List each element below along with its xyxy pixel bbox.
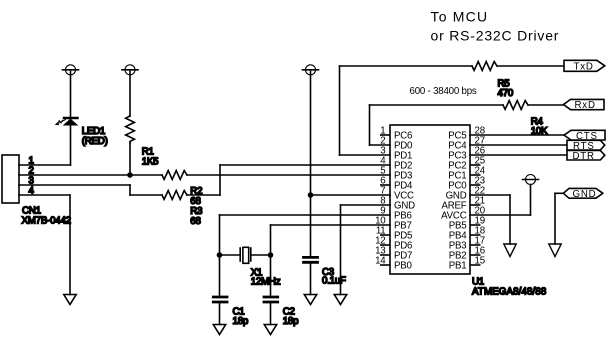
- capacitor C1: [213, 255, 227, 325]
- ground (C3): [304, 295, 316, 305]
- resistor R5: [472, 62, 497, 71]
- svg-text:DTR: DTR: [573, 151, 595, 162]
- net tag RxD: [564, 99, 605, 111]
- net tag GND: [563, 188, 602, 200]
- wire CN1 pin4 to ground: [19, 195, 70, 295]
- net tag TxD: [564, 60, 605, 72]
- wire U1 pin2 PD0 to RxD: [370, 105, 504, 145]
- ground (C1): [213, 325, 225, 335]
- crystal X1: [220, 247, 271, 263]
- pin stub 21: [470, 204, 481, 206]
- ground (C2): [264, 325, 276, 335]
- wire U1 pin8 GND to ground: [341, 205, 391, 295]
- LED D1 LED1 (RED): [55, 118, 78, 125]
- wire VCC rail down to C3: [310, 195, 312, 256]
- svg-text:1K5: 1K5: [142, 157, 159, 168]
- wire R5 to TxD tag: [497, 65, 564, 67]
- capacitor C2: [264, 255, 278, 325]
- pin stub 14: [380, 264, 390, 266]
- power symbol VCC (R1 branch): [122, 65, 138, 116]
- wire LED cathode to CN1 pin1: [19, 125, 71, 165]
- wire VCC rail to U1 pin7 VCC: [311, 194, 391, 196]
- ground (U1 pin22): [504, 244, 516, 257]
- wire U1 pin22 GND to ground: [470, 195, 510, 244]
- wire CN1 pin3 (D+) jog: [19, 185, 162, 195]
- svg-text:or RS-232C Driver: or RS-232C Driver: [431, 28, 560, 44]
- net tag DTR: [567, 150, 605, 161]
- wire U1 pin10 PB7 to crystal: [271, 225, 391, 255]
- wire CN1 pin2 (D-) to R2: [19, 174, 162, 176]
- wire U1 pin3 PD1 to TxD: [340, 66, 473, 155]
- svg-text:600 - 38400 bps: 600 - 38400 bps: [410, 86, 477, 97]
- svg-text:(RED): (RED): [82, 136, 108, 147]
- wire U1 pin28 PC5 to CTS: [470, 134, 564, 136]
- pin stub 18: [470, 234, 481, 236]
- junction dot crystal right: [268, 252, 274, 258]
- svg-text:PB1: PB1: [449, 261, 467, 272]
- pin stub 16: [470, 254, 481, 256]
- pin stub 1: [380, 134, 390, 136]
- junction dot crystal left: [217, 252, 223, 258]
- ground (CN1 pin4): [64, 295, 76, 305]
- pin stub 19: [470, 224, 481, 226]
- svg-text:18p: 18p: [233, 316, 249, 327]
- pin stub 23: [470, 184, 481, 186]
- svg-text:ATMEGA8/48/88: ATMEGA8/48/88: [472, 287, 546, 298]
- power symbol VCC (LED branch): [63, 65, 79, 117]
- power symbol VCC (main rail): [303, 65, 319, 195]
- wire U1 pin20 AVCC to power: [470, 185, 531, 216]
- svg-text:0.1uF: 0.1uF: [322, 276, 346, 287]
- pin stub 25: [470, 164, 481, 166]
- pin stub 12: [380, 244, 390, 246]
- junction dot D- / R1: [127, 172, 133, 178]
- pin stub 11: [380, 234, 390, 236]
- pin stub 15: [470, 264, 481, 266]
- net tag CTS: [564, 130, 605, 142]
- capacitor C3: [304, 257, 318, 294]
- pin stub 24: [470, 174, 481, 176]
- wire U1 pin9 PB6 to crystal: [220, 215, 391, 255]
- ground (U1 GND): [334, 295, 346, 305]
- svg-text:15: 15: [475, 256, 485, 267]
- resistor R4: [503, 101, 528, 110]
- svg-text:To MCU: To MCU: [431, 9, 489, 25]
- svg-text:PB0: PB0: [394, 261, 413, 272]
- wire R2 to U1 pin5 PD3: [187, 174, 390, 176]
- svg-text:XM7B-0442: XM7B-0442: [22, 216, 71, 227]
- wire R4 to RxD tag: [528, 104, 564, 106]
- junction dot VCC rail: [308, 192, 314, 198]
- svg-text:12MHz: 12MHz: [251, 277, 281, 288]
- wire R3 to U1 pin4 PD2: [187, 165, 390, 195]
- pin stub 13: [380, 254, 390, 256]
- svg-text:470: 470: [498, 88, 514, 99]
- svg-text:RxD: RxD: [575, 100, 596, 111]
- resistor R3: [162, 191, 187, 200]
- resistor R1: [126, 116, 135, 175]
- pin stub 17: [470, 244, 481, 246]
- connector CN1 XM7B-0442: [2, 155, 19, 203]
- svg-text:68: 68: [190, 216, 200, 227]
- net tag RTS: [567, 140, 605, 152]
- wire U1 pin26 PC3 to DTR: [470, 154, 567, 156]
- svg-text:18p: 18p: [283, 316, 299, 327]
- wire GND tag to ground: [555, 193, 563, 244]
- svg-text:GND: GND: [573, 189, 597, 200]
- ground (GND tag): [549, 244, 561, 257]
- power symbol VCC (AVCC): [523, 175, 539, 185]
- svg-text:TxD: TxD: [574, 62, 594, 73]
- resistor R2: [162, 171, 187, 180]
- svg-text:14: 14: [375, 256, 386, 267]
- pin stub 6: [380, 184, 390, 186]
- IC U1 body: [390, 125, 470, 274]
- IC U1 pin stubs and labels: [380, 135, 481, 265]
- wire U1 pin27 PC4 to RTS: [470, 144, 567, 146]
